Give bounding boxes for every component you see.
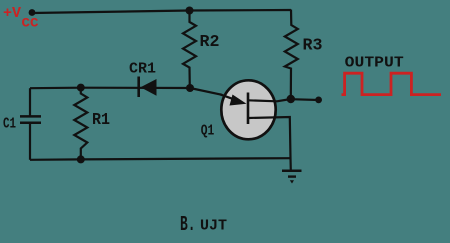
svg-text:B.: B. bbox=[180, 214, 196, 237]
svg-text:+V: +V bbox=[3, 5, 21, 22]
output square waveform bbox=[342, 73, 442, 94]
wire B2 lead to output junction bbox=[248, 99, 291, 101]
node output terminal bbox=[315, 97, 322, 104]
svg-text:R3: R3 bbox=[303, 37, 323, 56]
svg-text:Q1: Q1 bbox=[201, 123, 215, 140]
node junction R2 bottom / emitter bbox=[186, 84, 194, 92]
capacitor C1 top lead bbox=[29, 88, 31, 116]
capacitor C1 bottom lead bbox=[29, 123, 31, 160]
wire output stub bbox=[291, 98, 319, 101]
svg-text:UJT: UJT bbox=[200, 218, 227, 235]
transistor Q1 emitter line inside bbox=[220, 94, 238, 101]
capacitor C1 top plate bbox=[20, 115, 41, 118]
svg-text:C1: C1 bbox=[3, 115, 16, 132]
wire emitter diagonal bbox=[190, 88, 222, 95]
node junction R2 top bbox=[186, 7, 194, 15]
wire bottom rail bbox=[30, 158, 291, 160]
label +VCC supply bbox=[3, 5, 39, 31]
wire top rail bbox=[32, 10, 291, 13]
transistor Q1 emitter arrow bbox=[230, 95, 247, 106]
transistor Q1 base bar bbox=[247, 93, 250, 125]
diode CR1 cathode bar bbox=[137, 77, 140, 98]
svg-text:CR1: CR1 bbox=[129, 61, 156, 78]
node output junction bbox=[287, 95, 295, 103]
capacitor C1 bottom plate bbox=[20, 122, 41, 125]
svg-text:R1: R1 bbox=[92, 111, 110, 130]
resistor R1 bbox=[74, 88, 87, 160]
ground symbol bbox=[282, 171, 302, 184]
wire B1 lead down to ground bbox=[248, 117, 291, 171]
resistor R3 bbox=[285, 10, 298, 100]
node VCC terminal bbox=[29, 9, 36, 16]
resistor R2 bbox=[183, 10, 196, 88]
diode CR1 anode triangle bbox=[141, 79, 157, 96]
transistor Q1 body circle bbox=[221, 80, 275, 139]
svg-text:R2: R2 bbox=[200, 33, 220, 52]
wire C1-R1-diode horizontal bbox=[30, 87, 190, 90]
svg-text:OUTPUT: OUTPUT bbox=[345, 55, 404, 72]
node junction R1 top bbox=[77, 84, 85, 92]
node junction R1 bottom bbox=[77, 155, 85, 163]
svg-text:CC: CC bbox=[22, 16, 39, 31]
caption B. UJT bbox=[180, 214, 227, 237]
